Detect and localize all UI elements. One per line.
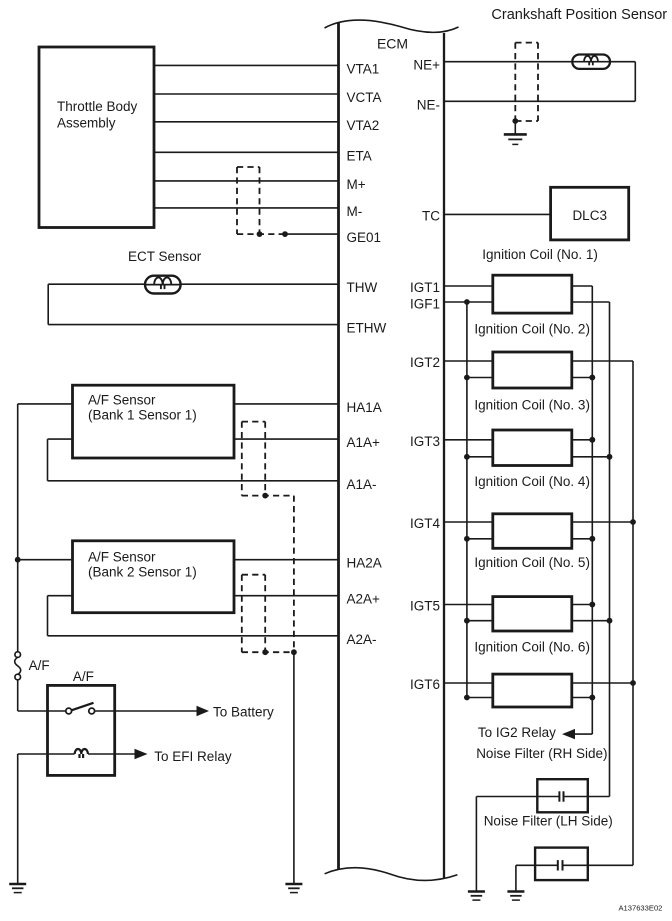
svg-text:ETHW: ETHW xyxy=(347,321,387,336)
svg-text:Noise Filter (RH Side): Noise Filter (RH Side) xyxy=(476,746,607,761)
svg-text:IGT1: IGT1 xyxy=(410,280,440,295)
svg-text:A/F: A/F xyxy=(29,658,50,673)
svg-text:A2A-: A2A- xyxy=(347,632,377,647)
svg-text:NE+: NE+ xyxy=(413,58,440,73)
svg-text:HA2A: HA2A xyxy=(347,556,382,571)
svg-text:ECM: ECM xyxy=(377,36,408,52)
svg-text:TC: TC xyxy=(422,208,440,223)
svg-text:To Battery: To Battery xyxy=(213,704,274,719)
svg-text:A/F Sensor: A/F Sensor xyxy=(88,393,156,408)
svg-text:Noise Filter (LH Side): Noise Filter (LH Side) xyxy=(484,814,613,829)
svg-text:Ignition Coil (No. 2): Ignition Coil (No. 2) xyxy=(474,321,590,336)
svg-text:Ignition Coil (No. 6): Ignition Coil (No. 6) xyxy=(474,639,590,654)
svg-text:IGT6: IGT6 xyxy=(410,677,440,692)
svg-text:To IG2 Relay: To IG2 Relay xyxy=(478,725,556,740)
svg-text:IGT5: IGT5 xyxy=(410,599,440,614)
svg-text:VCTA: VCTA xyxy=(347,90,382,105)
svg-text:GE01: GE01 xyxy=(347,230,382,245)
svg-text:ECT Sensor: ECT Sensor xyxy=(128,249,202,264)
svg-text:Assembly: Assembly xyxy=(57,116,116,131)
svg-text:ETA: ETA xyxy=(347,148,372,163)
svg-text:M+: M+ xyxy=(347,177,366,192)
svg-text:Crankshaft Position Sensor: Crankshaft Position Sensor xyxy=(491,7,667,23)
svg-text:Throttle Body: Throttle Body xyxy=(57,99,138,114)
svg-text:M-: M- xyxy=(347,204,363,219)
svg-text:IGF1: IGF1 xyxy=(410,297,440,312)
svg-text:A1A-: A1A- xyxy=(347,477,377,492)
svg-text:VTA2: VTA2 xyxy=(347,118,380,133)
svg-text:HA1A: HA1A xyxy=(347,400,382,415)
svg-text:(Bank 2 Sensor 1): (Bank 2 Sensor 1) xyxy=(88,565,197,580)
svg-text:A/F: A/F xyxy=(73,669,94,684)
svg-text:IGT3: IGT3 xyxy=(410,434,440,449)
svg-text:IGT4: IGT4 xyxy=(410,516,440,531)
svg-text:A2A+: A2A+ xyxy=(347,592,381,607)
svg-text:Ignition Coil (No. 1): Ignition Coil (No. 1) xyxy=(482,247,598,262)
svg-text:A137633E02: A137633E02 xyxy=(618,904,662,913)
svg-text:THW: THW xyxy=(347,280,378,295)
svg-text:(Bank 1 Sensor 1): (Bank 1 Sensor 1) xyxy=(88,408,197,423)
svg-text:A/F Sensor: A/F Sensor xyxy=(88,550,156,565)
svg-text:Ignition Coil (No. 3): Ignition Coil (No. 3) xyxy=(474,397,590,412)
svg-text:VTA1: VTA1 xyxy=(347,61,380,76)
svg-text:IGT2: IGT2 xyxy=(410,355,440,370)
svg-text:NE-: NE- xyxy=(417,97,440,112)
svg-text:Ignition Coil (No. 4): Ignition Coil (No. 4) xyxy=(474,474,590,489)
svg-text:To EFI Relay: To EFI Relay xyxy=(154,749,232,764)
svg-text:Ignition Coil (No. 5): Ignition Coil (No. 5) xyxy=(474,555,590,570)
svg-text:DLC3: DLC3 xyxy=(572,208,607,223)
svg-text:A1A+: A1A+ xyxy=(347,435,381,450)
